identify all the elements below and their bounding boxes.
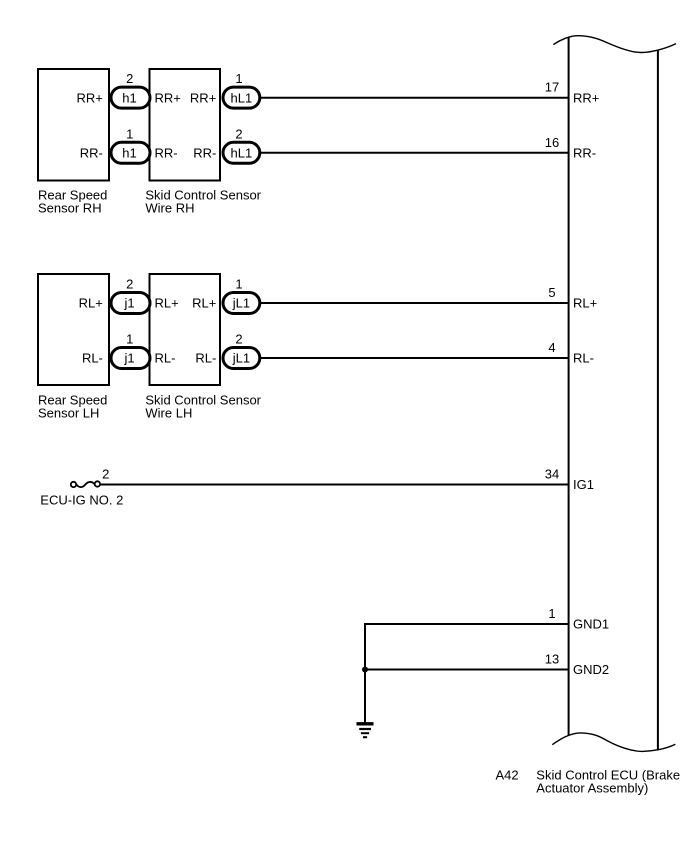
connector oval jL1 (RL-) bbox=[223, 348, 260, 369]
box: Skid Control Sensor Wire LH bbox=[150, 274, 221, 385]
svg-text:2: 2 bbox=[102, 467, 109, 482]
wire IG1 to ECU pin 34 bbox=[100, 484, 569, 486]
svg-text:1: 1 bbox=[235, 277, 242, 292]
wire RL- to ECU pin 4 bbox=[261, 357, 570, 359]
svg-text:RR-: RR- bbox=[80, 146, 103, 161]
wire RR+ to ECU pin 17 bbox=[261, 97, 570, 99]
svg-text:RL+: RL+ bbox=[573, 296, 597, 311]
svg-text:RL-: RL- bbox=[155, 351, 176, 366]
box: Skid Control Sensor Wire RH bbox=[150, 69, 221, 181]
svg-text:RR-: RR- bbox=[573, 146, 596, 161]
connector oval j1 (RL+) bbox=[111, 293, 150, 314]
svg-text:5: 5 bbox=[548, 285, 555, 300]
svg-text:hL1: hL1 bbox=[231, 146, 253, 161]
connector oval hL1 (RR+) bbox=[223, 87, 260, 108]
wire GND2 to ECU pin 13 bbox=[365, 669, 570, 671]
junction node GND bbox=[362, 667, 368, 673]
fuse ECU-IG NO. 2 element bbox=[76, 482, 94, 487]
svg-text:Actuator Assembly): Actuator Assembly) bbox=[536, 780, 648, 795]
svg-text:IG1: IG1 bbox=[573, 477, 594, 492]
svg-text:Sensor LH: Sensor LH bbox=[38, 405, 99, 420]
svg-text:Wire RH: Wire RH bbox=[145, 200, 194, 215]
svg-text:Wire LH: Wire LH bbox=[145, 405, 192, 420]
svg-text:RL-: RL- bbox=[573, 351, 594, 366]
svg-text:GND2: GND2 bbox=[573, 662, 609, 677]
fuse ECU-IG NO. 2 right terminal bbox=[95, 481, 100, 486]
fuse ECU-IG NO. 2 left terminal bbox=[71, 482, 76, 487]
svg-text:16: 16 bbox=[545, 135, 559, 150]
svg-text:hL1: hL1 bbox=[231, 90, 253, 105]
connector oval h1 (RR-) bbox=[111, 142, 150, 163]
svg-text:2: 2 bbox=[235, 126, 242, 141]
svg-text:1: 1 bbox=[126, 126, 133, 141]
svg-text:Sensor RH: Sensor RH bbox=[38, 200, 102, 215]
ground symbol bbox=[357, 724, 374, 737]
svg-text:1: 1 bbox=[126, 332, 133, 347]
svg-text:j1: j1 bbox=[123, 296, 134, 311]
svg-text:RR-: RR- bbox=[193, 146, 216, 161]
svg-text:jL1: jL1 bbox=[232, 351, 250, 366]
svg-text:jL1: jL1 bbox=[232, 296, 250, 311]
svg-text:RL+: RL+ bbox=[79, 296, 103, 311]
svg-text:RL-: RL- bbox=[82, 351, 103, 366]
svg-text:17: 17 bbox=[545, 80, 559, 95]
svg-text:RL-: RL- bbox=[195, 351, 216, 366]
svg-text:h1: h1 bbox=[122, 146, 136, 161]
wire RL+ to ECU pin 5 bbox=[261, 302, 570, 304]
wire GND1 to ECU pin 1 bbox=[365, 623, 570, 625]
svg-text:2: 2 bbox=[126, 277, 133, 292]
wire ground vertical bbox=[364, 623, 366, 723]
svg-text:RR+: RR+ bbox=[155, 90, 181, 105]
svg-text:2: 2 bbox=[126, 71, 133, 86]
wire RR- to ECU pin 16 bbox=[261, 152, 570, 154]
svg-text:34: 34 bbox=[545, 467, 559, 482]
svg-text:2: 2 bbox=[235, 332, 242, 347]
ECU connector bus right line bbox=[657, 50, 659, 751]
svg-text:RR-: RR- bbox=[155, 146, 178, 161]
svg-text:RR+: RR+ bbox=[573, 90, 599, 105]
svg-text:13: 13 bbox=[545, 652, 559, 667]
connector oval hL1 (RR-) bbox=[223, 142, 260, 163]
svg-text:RR+: RR+ bbox=[77, 90, 103, 105]
svg-text:GND1: GND1 bbox=[573, 617, 609, 632]
box: Rear Speed Sensor RH bbox=[38, 69, 109, 181]
ECU connector bottom wave bbox=[552, 733, 675, 752]
svg-text:j1: j1 bbox=[123, 351, 134, 366]
ECU connector bus left line bbox=[568, 37, 570, 735]
connector oval jL1 (RL+) bbox=[223, 293, 260, 314]
connector oval h1 (RR+) bbox=[111, 87, 150, 108]
svg-text:1: 1 bbox=[235, 71, 242, 86]
svg-text:h1: h1 bbox=[122, 90, 136, 105]
box: Rear Speed Sensor LH bbox=[38, 274, 109, 385]
svg-text:RL+: RL+ bbox=[155, 296, 179, 311]
svg-text:4: 4 bbox=[548, 340, 555, 355]
connector oval j1 (RL-) bbox=[111, 348, 150, 369]
ECU connector top wave bbox=[553, 36, 676, 53]
svg-text:ECU-IG NO. 2: ECU-IG NO. 2 bbox=[40, 492, 123, 507]
svg-text:RL+: RL+ bbox=[192, 296, 216, 311]
svg-text:1: 1 bbox=[548, 606, 555, 621]
svg-text:A42: A42 bbox=[496, 767, 519, 782]
svg-text:RR+: RR+ bbox=[190, 90, 216, 105]
